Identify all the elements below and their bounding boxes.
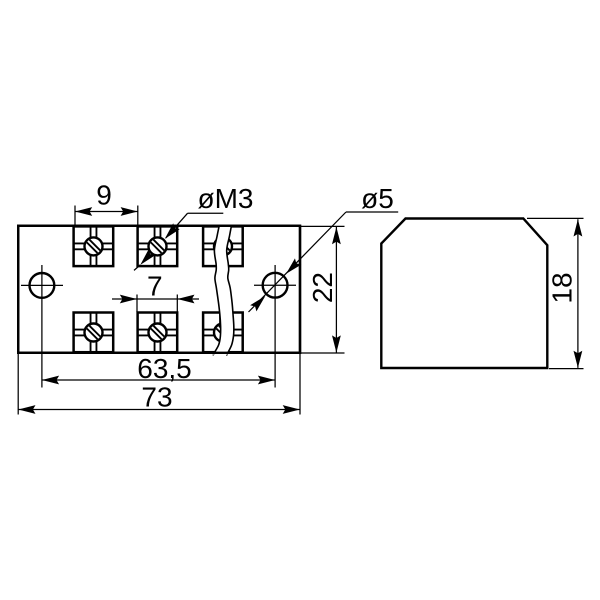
svg-text:ø5: ø5 <box>361 183 394 214</box>
svg-text:73: 73 <box>141 382 172 413</box>
svg-text:9: 9 <box>96 180 112 211</box>
svg-text:øM3: øM3 <box>198 183 254 214</box>
svg-text:18: 18 <box>547 272 578 303</box>
svg-text:7: 7 <box>147 270 163 301</box>
svg-text:22: 22 <box>307 272 338 303</box>
svg-text:63,5: 63,5 <box>137 353 192 384</box>
